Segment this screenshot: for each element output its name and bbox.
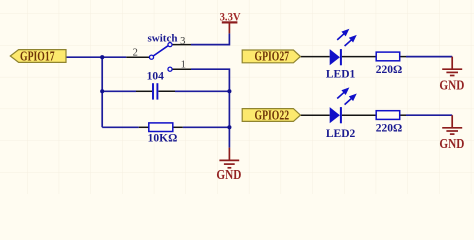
svg-text:3.3V: 3.3V — [220, 12, 242, 24]
svg-text:1: 1 — [181, 59, 186, 70]
svg-text:GND: GND — [216, 167, 241, 182]
svg-text:104: 104 — [147, 71, 165, 83]
svg-text:LED2: LED2 — [326, 128, 356, 140]
svg-text:10KΩ: 10KΩ — [148, 133, 178, 145]
svg-text:3: 3 — [180, 36, 185, 47]
svg-text:LED1: LED1 — [326, 68, 356, 80]
svg-text:2: 2 — [133, 48, 138, 59]
svg-text:220Ω: 220Ω — [376, 122, 402, 134]
svg-text:GPIO27: GPIO27 — [255, 49, 290, 64]
svg-text:220Ω: 220Ω — [376, 64, 402, 76]
svg-text:GND: GND — [439, 136, 464, 151]
svg-text:GPIO17: GPIO17 — [20, 49, 55, 64]
svg-text:switch: switch — [148, 32, 178, 44]
svg-text:GPIO22: GPIO22 — [255, 107, 290, 122]
svg-text:GND: GND — [439, 77, 464, 92]
